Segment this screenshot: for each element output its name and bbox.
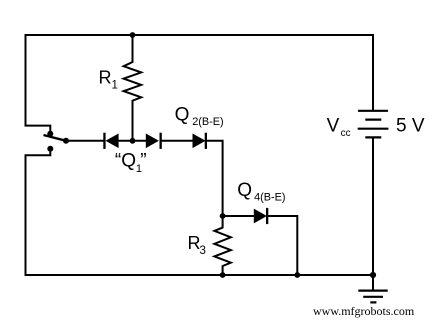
svg-text:www.mfgrobots.com: www.mfgrobots.com (313, 304, 415, 318)
node ground junction (370, 272, 376, 278)
ground (358, 275, 387, 302)
svg-text:3: 3 (200, 245, 206, 257)
switch S1 blade (44, 135, 67, 141)
wire right rail lower (372, 138, 374, 275)
svg-text:5 V: 5 V (396, 116, 425, 137)
svg-text:R: R (99, 68, 112, 88)
node top (R1 to top rail) (130, 32, 136, 38)
svg-text:2(B-E): 2(B-E) (192, 116, 223, 128)
node R3 bottom (220, 272, 226, 278)
wire node B to Q4 diode (223, 215, 254, 217)
wire bottom rail (26, 274, 374, 276)
wire right rail upper (372, 35, 374, 110)
wire top rail (26, 34, 374, 36)
diode Q4(B-E) (points right) (254, 208, 268, 224)
node Q4 return to bottom rail (294, 272, 300, 278)
svg-text:Q: Q (175, 105, 190, 126)
diode D1 left half of Q1 (points left) (103, 133, 118, 149)
wire Q2 diode to drop corner (207, 141, 223, 216)
svg-text:”: ” (140, 151, 146, 172)
switch S1 top contact (47, 131, 53, 137)
svg-text:cc: cc (341, 128, 351, 139)
resistor R1 (124, 35, 142, 141)
resistor R3 (214, 216, 231, 275)
wire Q4 diode to right corner down (268, 216, 298, 275)
wire left rail lower (26, 152, 51, 276)
svg-text:Q: Q (237, 180, 252, 201)
wire D2 to Q2 diode (161, 140, 193, 142)
svg-text:V: V (327, 115, 340, 136)
wire switch pole to D1 (66, 140, 103, 142)
node B junction of R3 and Q4 (220, 213, 226, 219)
svg-text:1: 1 (112, 80, 118, 92)
node A junction of Q1 base and R1 (130, 138, 136, 144)
wire left rail upper (26, 35, 51, 131)
switch S1 pole contact (63, 138, 69, 144)
diode Q2(B-E) (points right) (193, 133, 208, 149)
diode D2 right half of Q1 (points right) (146, 133, 162, 149)
wire D1 to node A (119, 140, 146, 142)
svg-text:4(B-E): 4(B-E) (254, 192, 285, 204)
switch S1 bottom contact (47, 146, 53, 152)
svg-text:“Q: “Q (115, 151, 136, 172)
battery V1 plates (358, 111, 389, 138)
